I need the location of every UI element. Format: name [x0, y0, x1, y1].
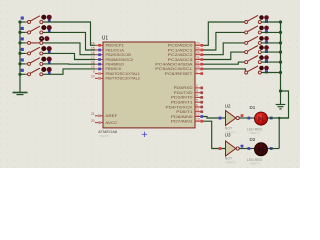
switch SW4	[28, 46, 52, 55]
svg-text:PC2/ADC2: PC2/ADC2	[168, 53, 193, 57]
svg-text:<TEXT>: <TEXT>	[249, 161, 261, 165]
logic state square (0) at U3 output	[241, 145, 244, 148]
svg-text:PD0/RXD: PD0/RXD	[174, 86, 194, 90]
svg-text:<TEXT>: <TEXT>	[99, 134, 111, 138]
node: left bus junction row 1	[18, 20, 21, 23]
svg-text:AREF: AREF	[106, 114, 118, 118]
wire: U3 output to D2 anode	[239, 148, 254, 150]
wire: SW3 to U1 pin PB2/SS/OC1B	[43, 43, 95, 55]
logic state square at D2 cathode	[270, 147, 273, 150]
pin PB7/TOSC2/XTAL2 (pin 10)	[91, 75, 140, 81]
svg-text:PD7/AIN1: PD7/AIN1	[171, 120, 193, 124]
svg-text:PB2/SS/OC1B: PB2/SS/OC1B	[106, 53, 131, 57]
svg-text:14: 14	[91, 42, 95, 46]
pin PB0/ICP1 (pin 14)	[91, 42, 124, 48]
node: right bus junction row 12	[279, 71, 282, 74]
logic state square (0) at SW1 ground side	[21, 17, 24, 20]
svg-text:25: 25	[196, 51, 200, 55]
svg-text:13: 13	[196, 118, 200, 122]
svg-text:28: 28	[196, 65, 200, 69]
svg-text:4: 4	[196, 94, 198, 98]
svg-text:PD1/TXD: PD1/TXD	[174, 91, 194, 95]
pin PD4/T0/XCK (pin 6)	[166, 103, 204, 109]
wire: U1 pin PC2/ADC2 to switch SW9	[203, 43, 245, 55]
svg-text:PC1/ADC1: PC1/ADC1	[168, 48, 193, 52]
switch SW10	[245, 45, 269, 53]
node: right bus junction row 8	[279, 31, 282, 34]
wire: D2 cathode to ground bus	[267, 148, 279, 150]
wire: D1 cathode to ground bus	[267, 117, 288, 119]
wire: U1 pin PC1/ADC1 to switch SW8	[203, 32, 245, 50]
switch SW6	[28, 67, 52, 76]
wire: U1 pin PC3/ADC3 to switch SW10	[203, 52, 245, 59]
pin PC4/ADC4/SDA (pin 27)	[155, 61, 203, 67]
wire: bus to switch SW1	[20, 21, 26, 23]
pin PC3/ADC3 (pin 26)	[168, 56, 203, 62]
svg-text:2: 2	[196, 84, 198, 88]
svg-text:10: 10	[91, 75, 95, 79]
svg-text:D1: D1	[250, 105, 256, 110]
node: left bus junction row 6	[18, 73, 21, 76]
wire: SW4 to U1 pin PB3/MOSI/OC2	[43, 53, 95, 59]
wire: SW2 to U1 pin PB1/OC1A	[43, 32, 95, 50]
svg-text:PB6/TOSC1/XTAL1: PB6/TOSC1/XTAL1	[106, 72, 141, 76]
pin PD6/AIN0 (pin 12)	[171, 113, 203, 119]
logic state square (0) at SW5 ground side	[21, 58, 24, 61]
pin PC2/ADC2 (pin 25)	[168, 51, 203, 57]
wire: bus to switch SW2	[20, 31, 26, 33]
gate U3 (NOT)	[226, 141, 240, 156]
svg-text:PC3/ADC3: PC3/ADC3	[168, 58, 193, 62]
pin PD3/INT1 (pin 5)	[171, 99, 203, 105]
switch SW8	[245, 26, 269, 34]
wire: SW8 to right bus	[261, 31, 280, 33]
pin AREF (pin 21)	[91, 112, 117, 118]
pin PD2/INT0 (pin 4)	[171, 94, 203, 100]
pin PD7/AIN1 (pin 13)	[171, 118, 203, 124]
wire: SW1 to U1 pin PB0/ICP1	[43, 22, 95, 45]
ground (right)	[276, 91, 286, 109]
switch SW5	[28, 57, 52, 66]
svg-text:PD4/T0/XCK: PD4/T0/XCK	[166, 105, 194, 109]
svg-text:12: 12	[196, 113, 200, 117]
ground (left)	[13, 91, 28, 95]
pin AVCC (pin 20)	[91, 119, 118, 125]
svg-text:21: 21	[91, 112, 95, 116]
logic state square (0) at U2 input	[219, 117, 222, 120]
svg-text:1: 1	[196, 70, 198, 74]
svg-text:<TEXT>: <TEXT>	[225, 160, 237, 164]
wire: PD7 to U3 input	[203, 121, 226, 148]
node: left bus junction row 3	[18, 41, 21, 44]
svg-text:PB5/SCK: PB5/SCK	[106, 67, 123, 71]
svg-text:PB0/ICP1: PB0/ICP1	[106, 44, 125, 48]
svg-text:5: 5	[196, 99, 198, 103]
wire: U2 output to D1 anode	[239, 117, 254, 119]
wire: U1 pin PC0/ADC0 to switch SW7	[203, 22, 245, 45]
switch SW11	[245, 55, 269, 63]
pin PB2/SS/OC1B (pin 16)	[91, 51, 131, 57]
wire: SW5 to U1 pin PB4/MISO	[43, 63, 95, 65]
svg-text:18: 18	[91, 61, 95, 65]
logic state square (0) at SW4 ground side	[21, 48, 24, 51]
wire: SW10 to right bus	[261, 51, 280, 53]
svg-text:PB4/MISO: PB4/MISO	[106, 63, 125, 67]
switch SW9	[245, 36, 269, 44]
svg-text:16: 16	[91, 51, 95, 55]
pin PB5/SCK (pin 19)	[91, 65, 123, 71]
svg-text:U3: U3	[225, 132, 231, 137]
svg-text:PD6/AIN0: PD6/AIN0	[171, 115, 193, 119]
logic state square (1) at U3 input	[219, 147, 222, 150]
svg-text:PC5/ADC5/SCL: PC5/ADC5/SCL	[155, 67, 193, 71]
svg-text:AVCC: AVCC	[106, 121, 119, 125]
pin PB4/MISO (pin 18)	[91, 61, 125, 67]
svg-text:20: 20	[91, 119, 95, 123]
svg-text:PB7/TOSC2/XTAL2: PB7/TOSC2/XTAL2	[106, 77, 141, 81]
wire: SW6 to U1 pin PB5/SCK	[43, 69, 95, 74]
right ground bus wire	[280, 22, 282, 91]
pin PB3/MOSI/OC2 (pin 17)	[91, 56, 133, 62]
node: left bus junction row 5	[18, 62, 21, 65]
logic state square at D1 cathode	[270, 117, 273, 120]
wire: bus to switch SW5	[20, 63, 26, 65]
svg-text:PB1/OC1A: PB1/OC1A	[106, 48, 125, 52]
svg-text:26: 26	[196, 56, 200, 60]
svg-text:3: 3	[196, 89, 198, 93]
logic state square (0) at SW6 ground side	[21, 69, 24, 72]
wire: bus to switch SW4	[20, 52, 26, 54]
pin PD1/TXD (pin 3)	[174, 89, 203, 95]
logic state square (0) at SW2 ground side	[21, 27, 24, 30]
svg-text:24: 24	[196, 46, 200, 50]
switch SW7	[245, 15, 269, 23]
wire: SW11 to right bus	[261, 61, 280, 63]
svg-text:PD2/INT0: PD2/INT0	[171, 96, 193, 100]
svg-text:15: 15	[91, 46, 95, 50]
wire: LED cathode return bus	[278, 118, 280, 149]
wire: right bus to LED cathode bus	[279, 91, 288, 118]
node: right bus junction row 11	[279, 61, 282, 64]
LED D1 (lit)	[254, 112, 267, 125]
svg-text:23: 23	[196, 42, 200, 46]
svg-text:17: 17	[91, 56, 95, 60]
svg-text:<TEXT>: <TEXT>	[249, 131, 261, 135]
wire: SW9 to right bus	[261, 42, 280, 44]
svg-text:PC4/ADC4/SDA: PC4/ADC4/SDA	[155, 63, 194, 67]
svg-text:19: 19	[91, 65, 95, 69]
wire: U1 pin PC4/ADC4/SDA to switch SW11	[203, 62, 245, 64]
gate U2 (NOT)	[226, 111, 240, 126]
wire: bus to switch SW3	[20, 42, 26, 44]
svg-text:27: 27	[196, 61, 200, 65]
svg-text:U1: U1	[102, 35, 109, 41]
wire: bus to switch SW6	[20, 73, 26, 75]
node: cathode bus junction at D1	[278, 117, 281, 120]
pin PB6/TOSC1/XTAL1 (pin 9)	[93, 70, 141, 76]
wire: SW12 to right bus	[261, 72, 280, 74]
pin PC5/ADC5/SCL (pin 28)	[155, 65, 203, 71]
pin PC0/ADC0 (pin 23)	[168, 42, 203, 48]
logic state square (1) at U2 output	[241, 114, 244, 117]
switch SW12	[245, 66, 269, 74]
svg-text:PD5/T1: PD5/T1	[176, 110, 193, 114]
node: right bus / ground junction	[279, 89, 282, 92]
switch SW3	[28, 36, 50, 44]
node: left bus junction row 4	[18, 52, 21, 55]
LED D2 (off)	[254, 143, 267, 156]
wire: PD6 to U2 input	[203, 117, 226, 119]
svg-text:U2: U2	[225, 104, 231, 109]
logic state square at D1 anode	[248, 117, 251, 120]
left ground bus wire	[19, 22, 21, 91]
svg-text:PC0/ADC0: PC0/ADC0	[168, 44, 193, 48]
svg-text:PB3/MOSI/OC2: PB3/MOSI/OC2	[106, 58, 134, 62]
pin PC6/RESET (pin 1)	[165, 70, 203, 76]
wire: U1 pin PC5/ADC5/SCL to switch SW12	[203, 69, 245, 73]
logic state square at D2 anode	[248, 147, 251, 150]
switch SW1	[28, 15, 52, 24]
svg-text:6: 6	[196, 103, 198, 107]
svg-text:9: 9	[93, 70, 95, 74]
node: right bus junction row 9	[279, 41, 282, 44]
node: right bus junction row 7	[279, 20, 282, 23]
svg-text:PC6/RESET: PC6/RESET	[165, 72, 193, 76]
pin PD5/T1 (pin 11)	[176, 108, 203, 114]
pin PB1/OC1A (pin 15)	[91, 46, 125, 52]
svg-text:11: 11	[196, 108, 200, 112]
svg-text:PD3/INT1: PD3/INT1	[171, 101, 193, 105]
switch SW2	[28, 25, 52, 34]
mcu U1 body (ATMEGA8)	[103, 42, 195, 128]
pin PD0/RXD (pin 2)	[174, 84, 203, 90]
node: right bus junction row 10	[279, 51, 282, 54]
svg-text:D2: D2	[250, 137, 256, 142]
logic state square (0) at SW3 ground side	[21, 37, 24, 40]
wire: SW7 to right bus	[261, 21, 280, 23]
marker: blue cross origin	[142, 132, 147, 137]
pin PC1/ADC1 (pin 24)	[168, 46, 203, 52]
node: left bus junction row 2	[18, 31, 21, 34]
